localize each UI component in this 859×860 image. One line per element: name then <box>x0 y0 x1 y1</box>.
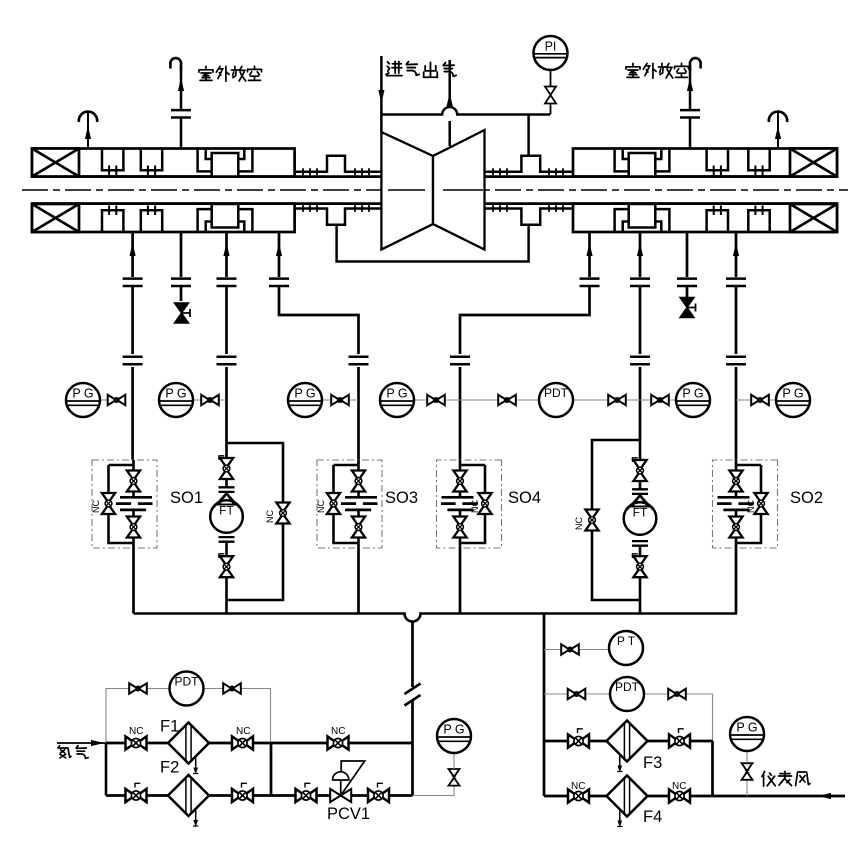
line R2 to FT-R <box>639 232 642 440</box>
valve PDT-right <box>608 395 626 405</box>
labyrinth line right-bottom with step <box>485 209 574 225</box>
solenoid group SO3 <box>317 460 382 548</box>
svg-text:NC: NC <box>236 726 250 737</box>
F1 outlet NC valve <box>232 736 253 749</box>
line L3 to FT-L <box>225 232 228 443</box>
big gas seal cartridge bottom-right <box>615 204 670 232</box>
gauge line PG6 <box>736 399 776 401</box>
control valve PCV1 <box>330 761 365 802</box>
big gas seal cartridge bottom-left <box>198 204 253 232</box>
svg-text:PCV1: PCV1 <box>327 805 370 823</box>
pipe break Z symbol <box>405 684 421 706</box>
manifold drop to PCV <box>411 621 414 795</box>
gauge PDT <box>539 383 573 417</box>
FT-L flange bottom <box>219 537 235 542</box>
F1 row line <box>106 742 413 745</box>
F3 row line <box>544 740 713 743</box>
right outer vent hook <box>777 113 779 149</box>
seal cartridge U2 top-right <box>747 149 771 176</box>
left rail <box>105 743 108 796</box>
text 室外放空 right <box>626 63 640 77</box>
gauge PDT-A <box>610 677 644 711</box>
seal cartridge U1 bottom-right <box>705 206 729 233</box>
F3 inlet valve <box>568 734 589 747</box>
F4 row line <box>544 795 845 798</box>
PG-N gauge line <box>413 786 455 796</box>
labyrinth line left-bottom with step and drop <box>295 209 382 225</box>
line R3 drain <box>686 232 689 298</box>
gauge PG2 <box>159 383 193 417</box>
shaft centerline <box>22 189 848 191</box>
bypass NC valve to header <box>328 736 349 749</box>
F2 row line <box>106 794 413 797</box>
svg-text:NC: NC <box>91 500 101 513</box>
gauge PT <box>609 631 643 665</box>
PT valve <box>561 644 579 654</box>
F3 outlet valve <box>669 734 690 747</box>
FT-R bypass NC valve <box>585 510 598 531</box>
svg-text:PDT: PDT <box>544 386 569 400</box>
gauge line PG2 <box>193 399 226 401</box>
bearing X box upper-left <box>32 149 79 177</box>
FT-L bypass <box>227 443 284 600</box>
gauge line PG3 <box>322 399 358 401</box>
F2 outlet valve <box>232 789 253 802</box>
gauge line PG4 <box>414 399 460 401</box>
seal cartridge U1 top-right <box>705 149 729 176</box>
svg-text:SO1: SO1 <box>170 489 203 507</box>
svg-text:NC: NC <box>331 726 345 737</box>
shaft upper line <box>32 175 837 178</box>
F4 outlet NC valve <box>669 789 690 802</box>
svg-text:F3: F3 <box>643 754 662 772</box>
FT-L gauge <box>210 500 243 533</box>
F2 inlet valve <box>126 789 147 802</box>
svg-text:NC: NC <box>574 517 584 530</box>
air inlet arrow <box>818 793 831 799</box>
line L1 to SO1 <box>131 232 134 460</box>
PDT-A valve left <box>568 689 586 699</box>
text 进气 <box>386 61 402 75</box>
gauge PG3 <box>288 383 322 417</box>
compressor suction drop right <box>527 115 530 156</box>
gauge line PG5 <box>640 399 676 401</box>
compressor lower frame <box>337 225 529 262</box>
big gas seal cartridge top-right <box>615 149 670 177</box>
seal cartridge U1 bottom-left <box>101 206 125 233</box>
gauge PG5 <box>676 383 710 417</box>
FT-L valve bottom <box>220 556 233 577</box>
valve PDT-left <box>498 395 516 405</box>
PDT loop line <box>106 689 271 744</box>
compressor bowtie left half <box>381 132 433 250</box>
svg-text:F1: F1 <box>160 718 179 736</box>
solenoid group SO4 <box>437 460 502 548</box>
drain valve left <box>175 303 191 323</box>
text 室外放空 left <box>199 66 213 80</box>
svg-text:NC: NC <box>316 500 326 513</box>
F4 inlet NC valve <box>568 789 589 802</box>
nitrogen inlet line <box>57 742 106 744</box>
left housing lower band <box>32 204 295 232</box>
solenoid group SO2 <box>713 460 778 548</box>
bearing X box lower-left <box>32 204 79 232</box>
seal cartridge U1 top-left <box>101 149 125 176</box>
svg-text:SO4: SO4 <box>508 489 541 507</box>
line R1 to SO4 <box>460 232 590 460</box>
F1 inlet NC valve <box>126 736 147 749</box>
filter F2 <box>168 775 209 827</box>
PDT-A valve right <box>668 689 686 699</box>
text 出气 <box>424 62 438 77</box>
gauge PG6 <box>776 383 810 417</box>
shaft lower line <box>32 202 837 205</box>
gauge PG-N <box>437 719 471 753</box>
outlet arrow <box>447 93 453 106</box>
svg-text:PDT: PDT <box>615 680 640 694</box>
svg-text:SO2: SO2 <box>790 489 823 507</box>
FT-R bypass <box>592 440 640 600</box>
inlet arrow <box>91 740 104 746</box>
PI line <box>550 70 552 115</box>
PCV upstream valve <box>296 789 317 802</box>
F3/F4 right rail <box>711 741 714 796</box>
labyrinth line left-top with step <box>295 156 382 172</box>
inlet arrow <box>378 90 384 103</box>
bearing X box lower-right <box>790 204 837 232</box>
line R4 to SO2 <box>735 232 738 460</box>
svg-text:F2: F2 <box>160 759 179 777</box>
compressor bowtie right half <box>433 130 485 250</box>
FT-R flange top <box>632 489 648 494</box>
right vent line <box>689 66 692 149</box>
svg-text:FT: FT <box>219 504 234 518</box>
PDT-A row line <box>544 694 713 741</box>
SO drop lines to manifold <box>134 548 737 614</box>
gauge PDT-N <box>170 672 204 706</box>
FT-L main line <box>225 443 228 614</box>
svg-text:NC: NC <box>672 781 686 792</box>
solenoid group SO1 <box>92 460 157 548</box>
left outer vent hook <box>87 113 89 149</box>
valve PG4 <box>427 395 445 405</box>
centerline through compressor <box>388 189 483 191</box>
ticks right-bottom <box>493 205 507 212</box>
text 氮气 <box>58 746 71 758</box>
FT-R funnel <box>627 495 654 510</box>
PDT-N valve right <box>223 683 241 693</box>
outlet pipe 出气 line <box>448 60 451 146</box>
labyrinth line right-top with step <box>485 156 574 172</box>
left housing upper band <box>32 149 295 177</box>
FT-R gauge <box>624 502 657 535</box>
big gas seal cartridge top-left <box>198 149 253 177</box>
svg-text:FT: FT <box>633 506 648 520</box>
ticks right-top <box>493 168 507 175</box>
manifold header line with jump <box>134 614 738 622</box>
svg-text:P T: P T <box>617 634 636 648</box>
gauge PG4 <box>380 383 414 417</box>
top header line with jump <box>381 107 550 114</box>
FT-R flange bottom <box>632 541 648 546</box>
FT-L flange top <box>219 487 235 492</box>
inlet pipe 进气 line <box>380 56 383 132</box>
text 仪表风 <box>762 771 775 786</box>
gauge line PG1 <box>100 399 123 401</box>
svg-text:NC: NC <box>470 500 480 513</box>
valve PG1 <box>108 395 126 405</box>
PCV downstream valve <box>368 789 389 802</box>
valve PG2 <box>201 395 219 405</box>
FT-R valve top <box>633 460 646 481</box>
right housing lower band <box>573 204 837 232</box>
filter F1 <box>168 723 209 775</box>
PG-N root valve <box>449 769 460 786</box>
svg-text:NC: NC <box>571 781 585 792</box>
left vent line <box>180 66 183 149</box>
svg-text:NC: NC <box>129 726 143 737</box>
svg-text:PDT: PDT <box>175 675 200 689</box>
valve PG5 <box>651 395 669 405</box>
seal cartridge U2 bottom-left <box>140 206 164 233</box>
FT-L funnel <box>213 493 240 508</box>
PI gauge <box>534 36 568 70</box>
ticks left-bottom <box>303 205 317 212</box>
seal cartridge U2 bottom-right <box>747 206 771 233</box>
gauge PG1 <box>66 383 100 417</box>
line L2 drain <box>180 232 183 301</box>
FT-R valve bottom <box>633 556 646 577</box>
gauge PG-A <box>730 717 764 751</box>
svg-text:PI: PI <box>545 40 557 54</box>
svg-text:NC: NC <box>746 500 756 513</box>
line L4 to SO3 <box>279 232 359 460</box>
FT-L valve top <box>220 458 233 479</box>
PI root valve <box>545 87 556 104</box>
PG-A gauge line <box>746 781 748 796</box>
ticks left-top <box>303 168 317 175</box>
FT-L bypass NC valve <box>276 503 289 524</box>
svg-text:NC: NC <box>265 510 275 523</box>
instrument air rail drop <box>543 614 546 797</box>
PDT-N valve left <box>129 683 147 693</box>
valve PG6 <box>751 395 769 405</box>
gauge line PDT <box>460 399 640 401</box>
filter F4 <box>607 776 648 828</box>
svg-text:SO3: SO3 <box>385 489 418 507</box>
bearing X box upper-right <box>790 149 837 177</box>
drain valve right <box>680 298 696 318</box>
seal cartridge U2 top-left <box>140 149 164 176</box>
right housing upper band <box>573 149 837 177</box>
svg-text:F4: F4 <box>643 808 662 826</box>
PG-A root valve <box>742 763 753 780</box>
FT-R main line <box>639 440 642 614</box>
F1/F2 junction rail <box>270 743 273 796</box>
valve PG3 <box>331 395 349 405</box>
filter F3 <box>607 721 648 773</box>
PT row line <box>544 649 609 651</box>
